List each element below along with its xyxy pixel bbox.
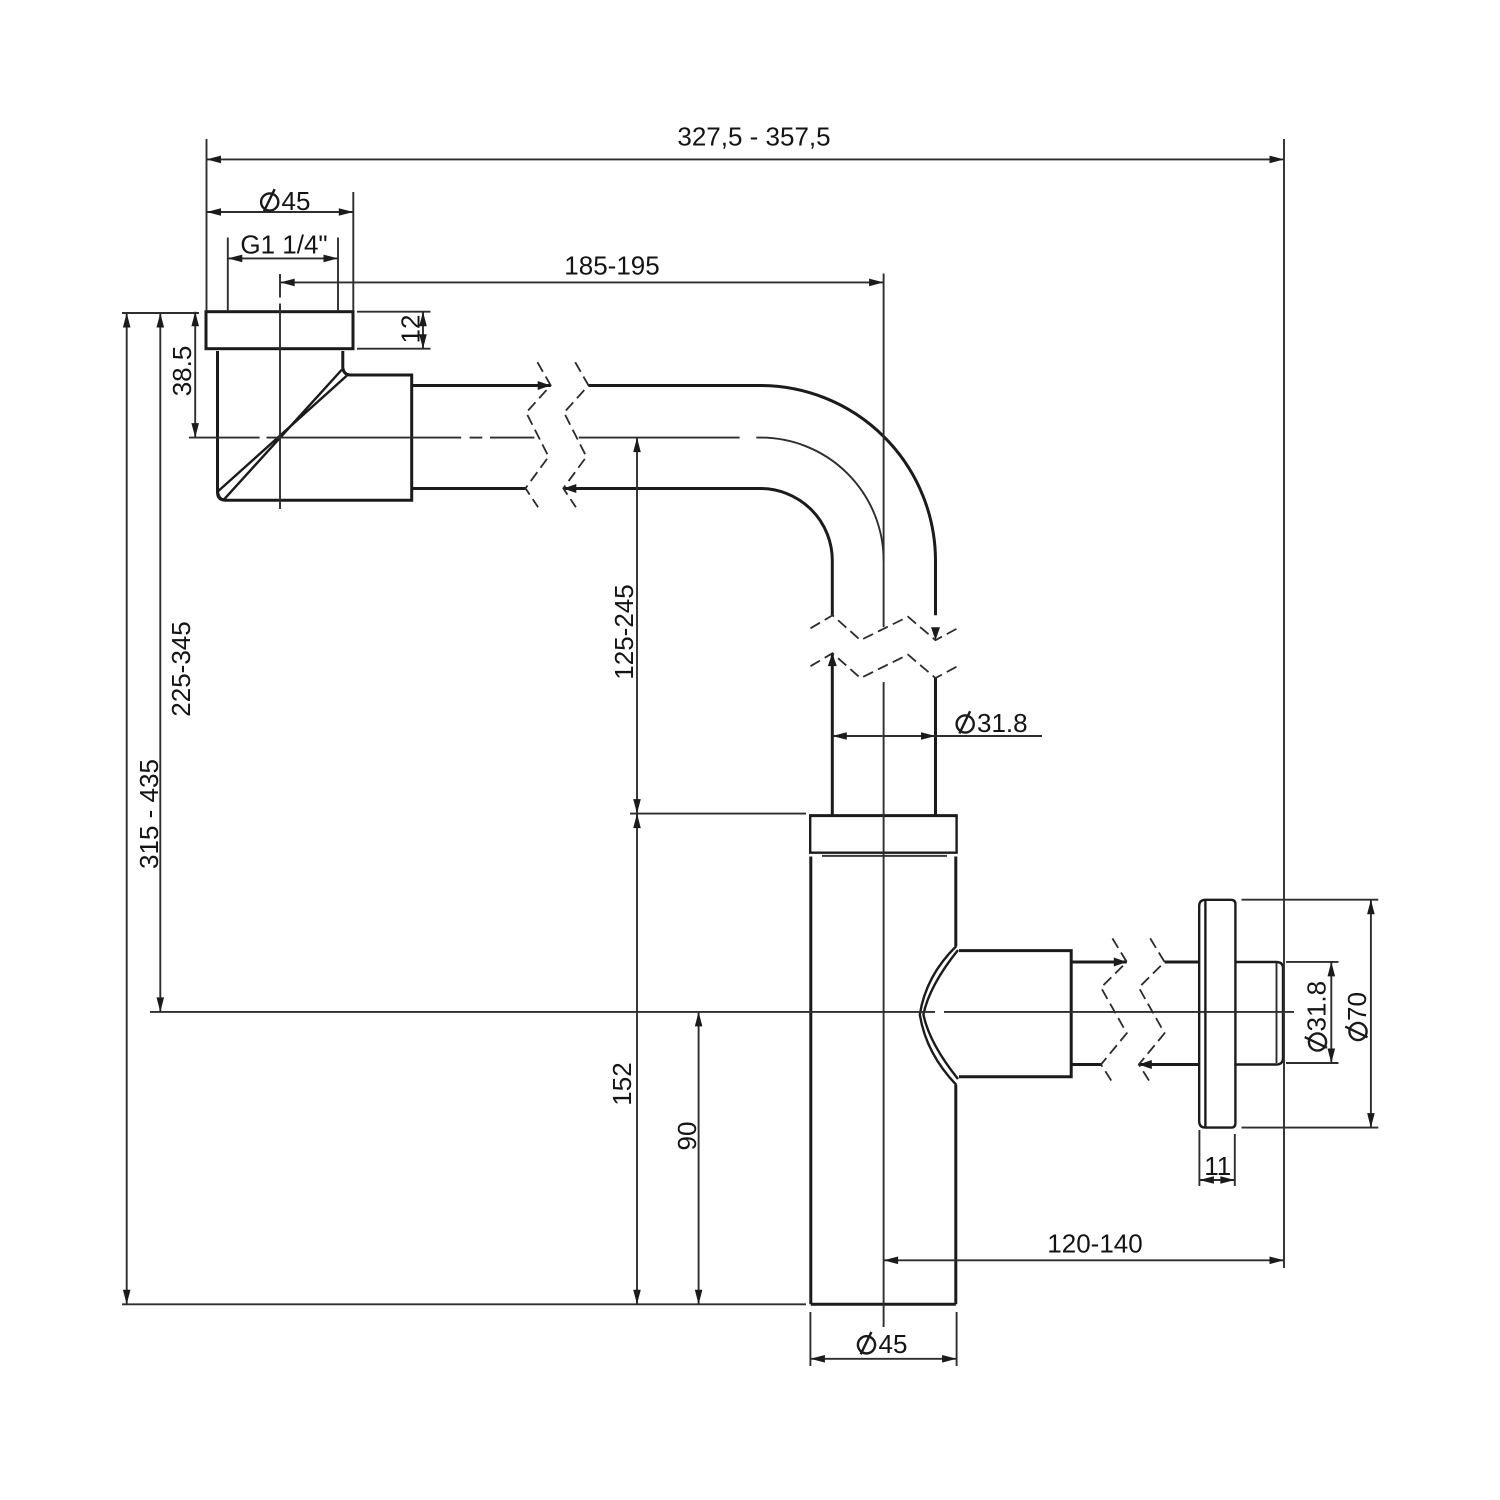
elbow miter seam diagonals xyxy=(218,370,347,500)
svg-text:327,5 - 357,5: 327,5 - 357,5 xyxy=(677,122,830,152)
svg-text:120-140: 120-140 xyxy=(1047,1229,1142,1259)
extension lines for dia 31.8 right xyxy=(1286,962,1339,1063)
dim 38.5 xyxy=(167,312,199,438)
svg-text:45: 45 xyxy=(879,1329,908,1359)
svg-text:90: 90 xyxy=(672,1122,702,1151)
outlet pipe edges xyxy=(1071,962,1199,1065)
dim dia 45 top xyxy=(207,186,354,216)
wall pipe stub with rounded end xyxy=(1235,962,1283,1065)
dim G1 1/4" xyxy=(228,229,338,262)
extension line 185-195 left (elbow centerline above nut) xyxy=(279,274,281,298)
extension lines for dim 12 xyxy=(357,312,431,349)
svg-text:31.8: 31.8 xyxy=(1302,981,1332,1032)
svg-text:185-195: 185-195 xyxy=(564,250,659,280)
outlet nut bullet xyxy=(959,951,1071,1077)
break zigzags on outlet pipe xyxy=(1101,938,1165,1084)
trap body cylinder xyxy=(811,856,956,1304)
svg-text:12: 12 xyxy=(396,315,426,344)
centerline vertical through bend and trap body xyxy=(883,274,885,628)
svg-text:11: 11 xyxy=(1204,1151,1231,1181)
wall nut G1 1/4 (top-left) xyxy=(206,312,353,349)
extension line nut top to left xyxy=(122,312,199,314)
dim 315-435 xyxy=(123,313,164,1304)
dim 327,5-357,5 xyxy=(207,122,1285,164)
centerline horizontal of elbow and pipe (dash-dot) xyxy=(189,438,884,561)
dim 225-345 xyxy=(157,313,197,1012)
horizontal pipe top edge with bend outer arc and vertical pipe right edge xyxy=(412,386,936,815)
svg-text:G1 1/4": G1 1/4" xyxy=(240,229,327,259)
break zigzags on horizontal pipe xyxy=(526,362,589,507)
extension baseline bottom xyxy=(122,1303,806,1305)
svg-text:225-345: 225-345 xyxy=(166,621,196,716)
centerline horizontal of outlet xyxy=(150,1011,935,1013)
extension lines for dia 70 xyxy=(1242,900,1379,1128)
dim dia 45 bottom xyxy=(810,1329,956,1363)
wall escutcheon flange plate xyxy=(1199,900,1235,1128)
centerline vertical of elbow xyxy=(279,304,281,510)
dim 11 xyxy=(1199,1151,1234,1184)
dim dia 31.8 middle xyxy=(832,708,1042,740)
svg-text:152: 152 xyxy=(607,1062,637,1105)
svg-text:45: 45 xyxy=(282,186,311,216)
extension line flange top to left xyxy=(630,813,806,815)
dim 185-195 xyxy=(280,250,883,286)
break arrows on outlet pipe xyxy=(1114,958,1127,967)
dim 90 xyxy=(672,1012,702,1304)
dim 125-245 and 152 shared line xyxy=(607,438,641,1305)
svg-text:38.5: 38.5 xyxy=(167,346,197,397)
break zigzags on vertical pipe xyxy=(811,615,958,678)
extension lines at top xyxy=(207,139,1285,1268)
dim 12 xyxy=(396,312,427,349)
dim dia 70 (rotated) xyxy=(1342,900,1375,1128)
dim 120-140 xyxy=(884,1229,1284,1265)
elbow body below nut xyxy=(218,351,412,500)
extension lines for dia 45 bottom xyxy=(810,1312,956,1366)
svg-text:125-245: 125-245 xyxy=(609,584,639,679)
horizontal pipe bottom edge with bend inner arc and vertical pipe left edge xyxy=(412,488,833,814)
svg-text:315 - 435: 315 - 435 xyxy=(134,759,164,869)
dim dia 31.8 right (rotated) xyxy=(1302,962,1336,1063)
extension lines for dim 11 xyxy=(1199,1130,1234,1186)
break arrows on vertical pipe xyxy=(931,627,940,640)
svg-text:70: 70 xyxy=(1342,992,1372,1021)
trap body top flange xyxy=(809,816,958,853)
svg-text:31.8: 31.8 xyxy=(977,708,1028,738)
outlet dome curves on trap body xyxy=(920,946,958,1085)
break arrows on horizontal pipe xyxy=(538,381,551,390)
